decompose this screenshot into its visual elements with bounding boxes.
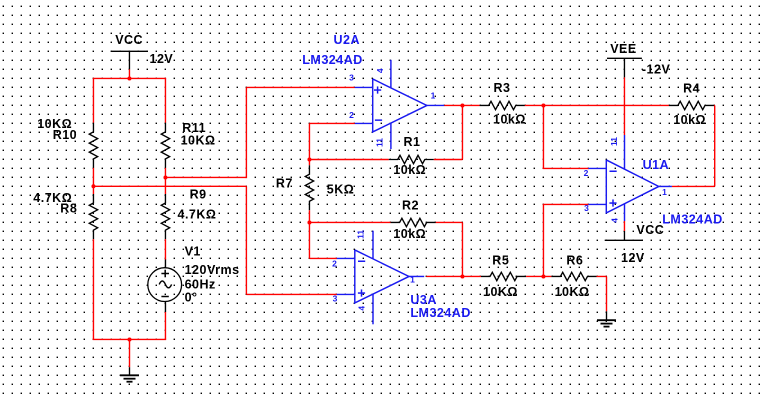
node junction R7/R2 — [307, 220, 311, 224]
label R1 ref — [404, 135, 421, 149]
label U1A part LM324AD — [662, 213, 722, 227]
svg-text:VEE: VEE — [610, 42, 637, 56]
label R11 value 10K — [181, 133, 216, 147]
svg-text:1: 1 — [410, 275, 415, 285]
resistor R6 — [551, 272, 596, 280]
node junction on top rail — [127, 76, 131, 80]
power VCC supply symbol (top left) — [111, 33, 148, 69]
pin 11 label U2A — [374, 138, 384, 147]
wire left branch upper — [92, 78, 94, 122]
svg-text:2: 2 — [584, 168, 589, 178]
svg-text:LM324AD: LM324AD — [302, 53, 362, 67]
svg-text:VCC: VCC — [115, 33, 143, 47]
svg-text:11: 11 — [374, 138, 384, 147]
label R1 value — [393, 163, 426, 177]
svg-text:10kΩ: 10kΩ — [493, 113, 526, 127]
resistor R2 — [391, 218, 436, 226]
svg-text:U1A: U1A — [643, 158, 670, 172]
wire node to R4 — [543, 104, 668, 106]
svg-text:R7: R7 — [276, 176, 293, 190]
pin 11 label U1A — [609, 137, 619, 146]
label U2A part LM324AD — [302, 53, 362, 67]
svg-text:2: 2 — [332, 259, 337, 269]
resistor R11 — [161, 123, 169, 168]
wire node to R3 — [462, 104, 479, 106]
resistor R10 — [89, 123, 97, 168]
svg-text:3: 3 — [333, 294, 338, 304]
wire node to U1A inverting input — [543, 105, 589, 168]
resistor R7 — [305, 165, 313, 210]
pin 1 label U3A — [410, 275, 415, 285]
pin 11 label U3A — [356, 230, 366, 239]
svg-text:R1: R1 — [404, 135, 421, 149]
pin 3 label U2A — [349, 73, 354, 83]
svg-text:10kΩ: 10kΩ — [673, 113, 706, 127]
label R10 value 10K — [37, 117, 72, 131]
wire node to R2 — [309, 221, 390, 223]
wire node to R6 — [543, 275, 551, 277]
wire R2 to U3A output node — [436, 222, 463, 276]
resistor R4 — [669, 101, 714, 109]
wire R3 to node — [525, 104, 544, 106]
resistor R1 — [389, 155, 434, 163]
resistor R3 — [480, 101, 525, 109]
wire U3A output — [426, 275, 462, 277]
label R9 ref — [190, 188, 207, 202]
wire bottom rail — [93, 338, 166, 340]
svg-text:R8: R8 — [60, 202, 77, 216]
svg-text:10KΩ: 10KΩ — [483, 285, 518, 299]
pin 3 label U1A — [584, 203, 589, 213]
label V1 frequency — [185, 277, 216, 291]
wire U1A pin 4 to VCC — [623, 221, 625, 231]
op-amp U2A — [355, 60, 445, 149]
label U3A part LM324AD — [410, 306, 470, 320]
svg-text:3: 3 — [584, 203, 589, 213]
wire R4 feedback to U1A output — [672, 105, 715, 186]
node junction R1/R7/U2A- — [307, 158, 311, 162]
node junction U3A output — [460, 274, 464, 278]
svg-text:2: 2 — [349, 110, 354, 120]
power VEE supply symbol — [607, 42, 642, 78]
pin 4 label U2A — [375, 68, 385, 73]
label R6 value — [555, 285, 590, 299]
wire node to R1 — [309, 159, 388, 161]
label R4 value — [673, 113, 706, 127]
wire between node and R9 — [164, 177, 166, 194]
label R9 value 4.7K — [178, 208, 217, 222]
label U2A ref — [334, 33, 361, 47]
svg-text:U2A: U2A — [334, 33, 361, 47]
svg-text:10kΩ: 10kΩ — [393, 163, 426, 177]
label R11 ref — [182, 121, 206, 135]
svg-text:4: 4 — [610, 218, 620, 223]
svg-text:12V: 12V — [150, 52, 174, 66]
label R10 ref — [53, 128, 77, 142]
wire VEE to U1A pin 11 — [623, 77, 625, 135]
label R3 ref — [494, 81, 511, 95]
svg-text:3: 3 — [349, 73, 354, 83]
label 12V for VCC top-left — [150, 52, 174, 66]
label R8 ref — [60, 202, 77, 216]
svg-text:R3: R3 — [494, 81, 511, 95]
svg-text:VCC: VCC — [636, 223, 664, 237]
label R6 ref — [566, 254, 583, 268]
node junction bottom rail — [128, 337, 132, 341]
label R3 value — [493, 113, 526, 127]
pin 2 label U2A — [349, 110, 354, 120]
label V1 voltage — [185, 263, 240, 277]
node junction R5/R6 — [541, 274, 545, 278]
svg-text:1: 1 — [662, 187, 667, 197]
wire top rail — [93, 77, 166, 79]
label V1 ref — [185, 244, 201, 258]
wire U2A output — [444, 104, 462, 106]
resistor R8 — [89, 194, 97, 239]
node junction left branch — [91, 184, 95, 188]
wire U2A inverting input — [309, 123, 354, 159]
voltage source V1 — [148, 260, 182, 313]
ground symbol (right) — [597, 311, 616, 326]
svg-text:4.7KΩ: 4.7KΩ — [178, 208, 217, 222]
node junction R3/R4 — [541, 103, 545, 107]
pin 4 label U1A — [610, 218, 620, 223]
svg-text:1: 1 — [431, 91, 436, 101]
label R2 ref — [402, 199, 419, 213]
label R4 ref — [683, 81, 700, 95]
wire right branch upper — [164, 78, 166, 122]
svg-text:4: 4 — [357, 306, 367, 311]
wire right branch to node — [164, 168, 166, 178]
pin 4 label U3A — [357, 306, 367, 311]
wire R9 to V1 — [164, 239, 166, 260]
wire B to U3A noninverting input — [93, 186, 337, 294]
wire R1 to U2A output — [434, 105, 463, 159]
svg-text:R9: R9 — [190, 188, 207, 202]
wire left branch lower — [92, 239, 94, 339]
label U1A ref — [643, 158, 670, 172]
ground symbol (bottom left) — [120, 367, 139, 382]
resistor R5 — [481, 272, 526, 280]
pin 2 label U3A — [332, 259, 337, 269]
svg-text:-12V: -12V — [642, 63, 671, 77]
wire VCC stem to top rail — [128, 69, 130, 79]
label R7 value 5K — [327, 182, 355, 196]
svg-text:11: 11 — [609, 137, 619, 146]
svg-text:LM324AD: LM324AD — [410, 306, 470, 320]
svg-text:10kΩ: 10kΩ — [393, 227, 426, 241]
pin 1 label U1A — [662, 187, 667, 197]
wire node to R5 — [462, 275, 481, 277]
label V1 phase — [185, 291, 198, 305]
wire left branch middle — [92, 168, 94, 194]
svg-text:4: 4 — [375, 68, 385, 73]
svg-text:60Hz: 60Hz — [185, 277, 216, 291]
power VCC supply symbol (right) — [605, 223, 665, 240]
pin 3 label U3A — [333, 294, 338, 304]
label R7 ref — [276, 176, 293, 190]
resistor R9 — [161, 194, 169, 239]
label 12V for VCC right — [621, 251, 645, 265]
label U3A ref — [410, 293, 437, 307]
svg-text:120Vrms: 120Vrms — [185, 263, 240, 277]
wire ground stem red — [129, 339, 131, 367]
svg-text:R10: R10 — [53, 128, 77, 142]
wire U3A inverting input — [309, 222, 336, 258]
svg-text:U3A: U3A — [410, 293, 437, 307]
svg-text:R4: R4 — [683, 81, 700, 95]
svg-text:LM324AD: LM324AD — [662, 213, 722, 227]
svg-text:5KΩ: 5KΩ — [327, 182, 355, 196]
svg-text:R2: R2 — [402, 199, 419, 213]
wire R6 to ground corner — [597, 276, 607, 311]
op-amp U1A — [588, 135, 672, 221]
label -12V for VEE — [642, 63, 671, 77]
wire node to R7 — [308, 160, 310, 166]
svg-text:11: 11 — [356, 230, 366, 239]
pin 2 label U1A — [584, 168, 589, 178]
pin 1 label U2A — [431, 91, 436, 101]
svg-text:10KΩ: 10KΩ — [555, 285, 590, 299]
svg-text:R6: R6 — [566, 254, 583, 268]
wire V1 to bottom rail — [164, 312, 166, 339]
wire R5 to node — [526, 275, 543, 277]
label R5 value — [483, 285, 518, 299]
svg-text:V1: V1 — [185, 244, 201, 258]
wire R7 to node — [308, 210, 310, 222]
svg-text:10KΩ: 10KΩ — [181, 133, 216, 147]
label R5 ref — [492, 254, 509, 268]
node junction R11/R9 — [163, 175, 167, 179]
op-amp U3A — [337, 231, 424, 325]
node junction U2A output — [460, 103, 464, 107]
label R8 value 4.7K — [33, 191, 72, 205]
wire node to U1A noninverting input — [543, 204, 589, 276]
svg-text:R5: R5 — [492, 254, 509, 268]
label R2 value — [393, 227, 426, 241]
svg-text:0°: 0° — [185, 291, 198, 305]
svg-text:12V: 12V — [621, 251, 645, 265]
wire A to U2A noninverting input — [165, 87, 354, 178]
